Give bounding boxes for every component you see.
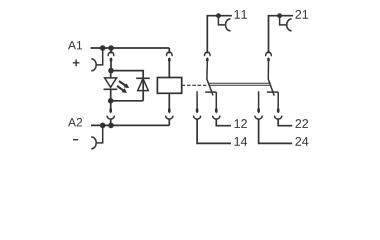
wire led branch upper bbox=[110, 48, 112, 53]
plug pin 14 bbox=[196, 109, 199, 114]
wire to diode branch bbox=[111, 71, 143, 79]
node junction 21 bbox=[277, 13, 282, 18]
terminal label 14 bbox=[235, 137, 248, 146]
plug socket cup 22 bbox=[275, 116, 282, 119]
wire NO contact pole 2 bbox=[258, 91, 260, 110]
wire terminal 21 bbox=[269, 16, 294, 54]
wire terminal 14 bbox=[197, 119, 231, 144]
terminal label A2 bbox=[68, 118, 82, 126]
plug socket cup coil bottom bbox=[166, 116, 173, 119]
wire top rail down to coil bbox=[168, 48, 170, 53]
cage clamp A1 bbox=[91, 59, 96, 71]
cage clamp A2 bbox=[91, 137, 96, 149]
node junction 11 bbox=[216, 13, 221, 18]
wire led cathode down bbox=[110, 89, 112, 101]
wire terminal 11 bbox=[207, 16, 232, 54]
plug pin led bottom bbox=[109, 109, 112, 114]
diode D2 triangle bbox=[138, 79, 149, 91]
LED D1 cathode bar bbox=[104, 88, 118, 90]
plug pin contact 2 bbox=[267, 57, 270, 61]
wire diode D2 through bbox=[142, 78, 144, 101]
mechanical link dashed bbox=[182, 84, 207, 86]
node junction A2-clamp bbox=[100, 123, 106, 129]
node junction A1-led branch bbox=[108, 45, 114, 51]
wire diode return bbox=[111, 100, 144, 102]
wire NC contact to pin 22 bbox=[277, 92, 279, 110]
plug socket cup led top bbox=[108, 52, 114, 56]
cage clamp 21 bbox=[287, 19, 292, 31]
LED emission arrow 1 bbox=[118, 80, 129, 88]
wire to clamp 21 bbox=[280, 16, 287, 25]
plug socket cup contact 1 bbox=[205, 52, 211, 56]
plug socket cup led bottom bbox=[107, 116, 114, 119]
terminal label A1 bbox=[68, 41, 82, 49]
wire to clamp 11 bbox=[218, 16, 225, 25]
cage clamp 11 bbox=[225, 19, 230, 31]
wire coil bottom bbox=[168, 93, 170, 110]
terminal label 24 bbox=[295, 137, 308, 146]
plug pin coil top bbox=[168, 57, 171, 61]
wire A2 bottom rail bbox=[91, 124, 169, 126]
terminal label 12 bbox=[235, 119, 247, 128]
terminal label 22 bbox=[295, 119, 308, 128]
node junction A1-clamp bbox=[100, 45, 106, 51]
LED emission arrow 2 bbox=[116, 85, 127, 93]
actuator bar lower line bbox=[209, 84, 271, 86]
wire NC contact to pin 12 bbox=[215, 92, 217, 110]
plug pin 12 bbox=[215, 109, 218, 114]
contact seat tick pole 2 bbox=[267, 91, 278, 93]
terminal label 21 bbox=[295, 10, 308, 19]
wire pin to coil bbox=[168, 61, 170, 78]
wire NO contact pole 1 bbox=[196, 91, 198, 110]
terminal label 11 bbox=[235, 10, 247, 19]
plug pin 22 bbox=[277, 109, 280, 114]
plug pin contact 1 bbox=[206, 57, 209, 61]
relay coil K1 bbox=[157, 78, 181, 94]
node junction A2-led branch bbox=[108, 123, 114, 129]
wire terminal 22 bbox=[278, 119, 292, 126]
diode D2 cathode bar bbox=[136, 77, 150, 79]
plug pin 24 bbox=[257, 109, 260, 114]
wire cup to A2 rail bbox=[110, 119, 112, 126]
wire led branch lower bbox=[110, 101, 112, 110]
LED D1 triangle bbox=[105, 78, 117, 87]
wire cup to A2 rail right bbox=[168, 119, 170, 126]
wire to A2 clamp bbox=[97, 125, 103, 142]
wire to A1 clamp bbox=[97, 48, 103, 65]
wire terminal 24 bbox=[259, 119, 293, 144]
plug socket cup contact 2 bbox=[266, 52, 272, 56]
wire terminal 12 bbox=[216, 119, 231, 126]
contact lever pole 1 bbox=[207, 61, 213, 95]
plug socket cup 12 bbox=[213, 116, 220, 119]
polarity minus sign bbox=[73, 139, 78, 141]
plug socket cup 14 bbox=[194, 116, 201, 119]
polarity plus sign bbox=[73, 60, 80, 67]
contact lever pole 2 bbox=[268, 61, 274, 95]
contact seat tick pole 1 bbox=[205, 91, 216, 93]
plug pin led top bbox=[110, 57, 113, 61]
wire led anode bbox=[110, 71, 112, 79]
actuator bar upper line bbox=[209, 82, 271, 84]
wire A1 top rail bbox=[91, 47, 170, 49]
plug pin coil bottom bbox=[168, 109, 171, 114]
wire pin to led node bbox=[110, 61, 112, 71]
node junction led/diode top bbox=[108, 68, 114, 74]
node junction led/diode bottom bbox=[108, 98, 114, 104]
plug socket cup 24 bbox=[255, 116, 262, 119]
plug socket cup coil top bbox=[166, 52, 172, 56]
